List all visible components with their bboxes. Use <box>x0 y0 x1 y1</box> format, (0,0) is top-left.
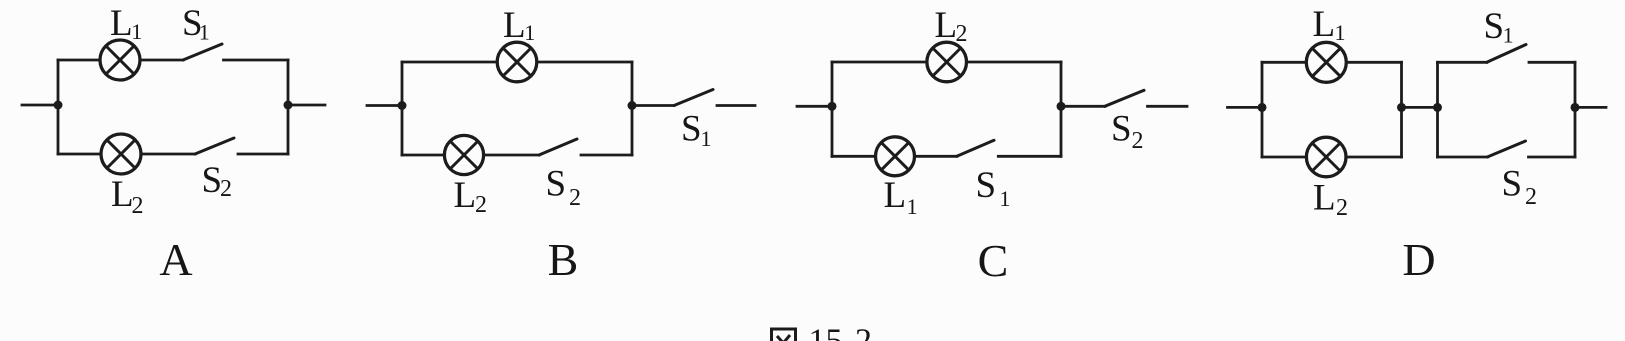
wire: series out C <box>1061 105 1105 108</box>
label L1 (circuit A) <box>110 3 142 44</box>
lamp L1 (circuit D) <box>1306 42 1346 82</box>
wire: bottom branch C segment 2 <box>915 155 957 158</box>
label S1 (circuit A) <box>182 3 210 45</box>
switch S2 (circuit C) blade <box>1105 90 1144 106</box>
wire: left lead B <box>367 104 402 107</box>
lamp L2 (circuit A) <box>101 134 141 174</box>
label S1 (circuit D) <box>1484 6 1514 48</box>
wire: left rail A <box>57 60 60 154</box>
node: middle junction 2 D <box>1433 103 1442 112</box>
wire: left rail B <box>401 62 404 155</box>
svg-text:1: 1 <box>1503 23 1514 48</box>
label S2 (circuit B) <box>546 164 582 212</box>
wire: series out C segment 2 <box>1148 105 1188 108</box>
wire: left lead A <box>22 104 58 107</box>
caption character 图 inner stroke 2 <box>780 335 790 341</box>
wire: switch top branch D segment 2 <box>1529 61 1575 64</box>
svg-text:L: L <box>503 5 526 46</box>
wire: lamp top branch D segment 1 <box>1262 61 1306 64</box>
wire: lamp top branch D segment 2 <box>1346 61 1401 64</box>
svg-text:2: 2 <box>132 193 144 219</box>
caption character 图 box <box>772 329 796 341</box>
label L2 (circuit B) <box>454 175 488 218</box>
wire: right lead A <box>288 104 325 107</box>
svg-text:1: 1 <box>1335 20 1346 45</box>
lamp L2 (circuit C) <box>927 42 967 82</box>
node: right junction D <box>1571 103 1580 112</box>
lamp L2 (circuit D) <box>1306 137 1346 177</box>
label S2 (circuit D) <box>1502 164 1538 211</box>
wire: right rail B <box>631 62 634 155</box>
svg-text:S: S <box>1502 164 1523 205</box>
caption character 图 inner strokes <box>777 336 787 341</box>
label L1 (circuit B) <box>503 5 535 46</box>
wire: middle link D <box>1402 106 1438 109</box>
svg-text:L: L <box>935 5 958 46</box>
wire: right rail D switches <box>1574 62 1577 157</box>
svg-text:1: 1 <box>701 126 712 151</box>
label L1 (circuit D) <box>1313 4 1346 45</box>
svg-text:1: 1 <box>907 194 918 219</box>
wire: bottom branch A segment 2 <box>141 153 195 156</box>
label L2 (circuit A) <box>111 174 144 219</box>
wire: bottom branch B segment 2 <box>484 154 539 157</box>
svg-text:B: B <box>548 234 579 285</box>
wire: bottom branch C segment 1 <box>832 155 876 158</box>
lamp L1 (circuit B) <box>497 42 537 82</box>
svg-text:S: S <box>546 164 567 205</box>
wire: left rail D switches <box>1436 62 1439 157</box>
label S2 (circuit C) <box>1111 109 1144 155</box>
wire: bottom branch A segment 3 <box>238 153 288 156</box>
wire: series out B segment 2 <box>717 104 755 107</box>
switch S1 (circuit B) blade <box>674 90 713 106</box>
switch S1 (circuit C) blade <box>957 140 994 156</box>
node: right junction C <box>1057 102 1066 111</box>
label S1 (circuit C) <box>976 165 1011 211</box>
wire: right rail A <box>287 60 290 154</box>
wire: lamp bottom branch D segment 2 <box>1346 156 1402 159</box>
wire: series out B <box>632 104 674 107</box>
label L2 (circuit C) <box>935 5 968 47</box>
wire: left lead C <box>797 105 832 108</box>
node: left junction D <box>1258 103 1267 112</box>
svg-text:L: L <box>884 175 907 216</box>
wire: top branch A segment 3 <box>224 59 289 62</box>
switch S2 (circuit D) blade <box>1487 141 1525 157</box>
wire: right rail C <box>1060 62 1063 156</box>
svg-text:A: A <box>159 234 192 285</box>
wire: lamp bottom branch D segment 1 <box>1262 156 1306 159</box>
svg-text:D: D <box>1402 234 1435 285</box>
wire: bottom branch B segment 3 <box>581 154 632 157</box>
wire: top branch C segment 1 <box>832 61 927 64</box>
wire: top branch B segment 2 <box>537 61 632 64</box>
label L2 (circuit D) <box>1313 178 1348 222</box>
switch S2 (circuit B) blade <box>539 139 577 155</box>
node: left junction A <box>54 101 63 110</box>
svg-text:1: 1 <box>999 186 1010 211</box>
svg-text:C: C <box>978 235 1009 286</box>
svg-text:2: 2 <box>475 192 487 218</box>
switch S2 (circuit A) blade <box>195 138 234 154</box>
wire: left rail C <box>831 62 834 156</box>
switch S1 (circuit D) blade <box>1487 45 1526 63</box>
wire: left rail D lamps <box>1261 62 1264 157</box>
svg-text:S: S <box>202 160 223 201</box>
wire: top branch A segment 1 <box>58 59 100 62</box>
svg-text:2: 2 <box>1336 195 1348 221</box>
label L1 (circuit C) <box>884 175 918 219</box>
node: right junction A <box>284 101 293 110</box>
svg-text:1: 1 <box>524 20 535 45</box>
node: middle junction 1 D <box>1397 103 1406 112</box>
svg-text:2: 2 <box>956 21 968 47</box>
lamp L2 (circuit B) <box>444 135 483 174</box>
wire: bottom branch A segment 1 <box>58 153 101 156</box>
svg-text:2: 2 <box>569 185 581 211</box>
wire: top branch A segment 2 <box>140 59 183 62</box>
svg-text:1: 1 <box>199 20 210 45</box>
svg-text:1: 1 <box>131 19 142 44</box>
wire: bottom branch C segment 3 <box>998 155 1061 158</box>
svg-text:L: L <box>454 175 477 216</box>
svg-text:2: 2 <box>220 176 232 202</box>
svg-text:S: S <box>681 109 702 150</box>
svg-text:2: 2 <box>1132 128 1144 154</box>
svg-text:L: L <box>110 3 133 44</box>
svg-text:15: 15 <box>809 323 843 341</box>
svg-text:S: S <box>976 165 997 206</box>
wire: switch bottom branch D segment 2 <box>1529 156 1576 159</box>
switch S1 (circuit A) blade <box>183 44 222 60</box>
wire: right rail D lamps <box>1400 62 1403 157</box>
svg-text:S: S <box>1484 6 1505 47</box>
wire: top branch C segment 2 <box>967 61 1062 64</box>
lamp L1 (circuit A) <box>100 40 140 80</box>
wire: top branch B segment 1 <box>402 61 497 64</box>
svg-text:L: L <box>1313 178 1336 219</box>
wire: switch top branch D segment 1 <box>1438 61 1487 64</box>
svg-text:S: S <box>1111 109 1132 150</box>
label S2 (circuit A) <box>202 160 233 202</box>
node: left junction B <box>398 101 407 110</box>
label S1 (circuit B) <box>681 109 712 152</box>
lamp L1 (circuit C) <box>876 137 915 176</box>
node: right junction B <box>628 101 637 110</box>
svg-text:2: 2 <box>855 323 872 341</box>
wire: bottom branch B segment 1 <box>402 154 445 157</box>
svg-text:2: 2 <box>1525 184 1537 210</box>
svg-text:L: L <box>1313 4 1336 45</box>
wire: switch bottom branch D segment 1 <box>1438 156 1488 159</box>
wire: right lead D <box>1575 106 1606 109</box>
wire: left lead D <box>1228 106 1263 109</box>
node: left junction C <box>828 102 837 111</box>
svg-text:L: L <box>111 174 134 215</box>
